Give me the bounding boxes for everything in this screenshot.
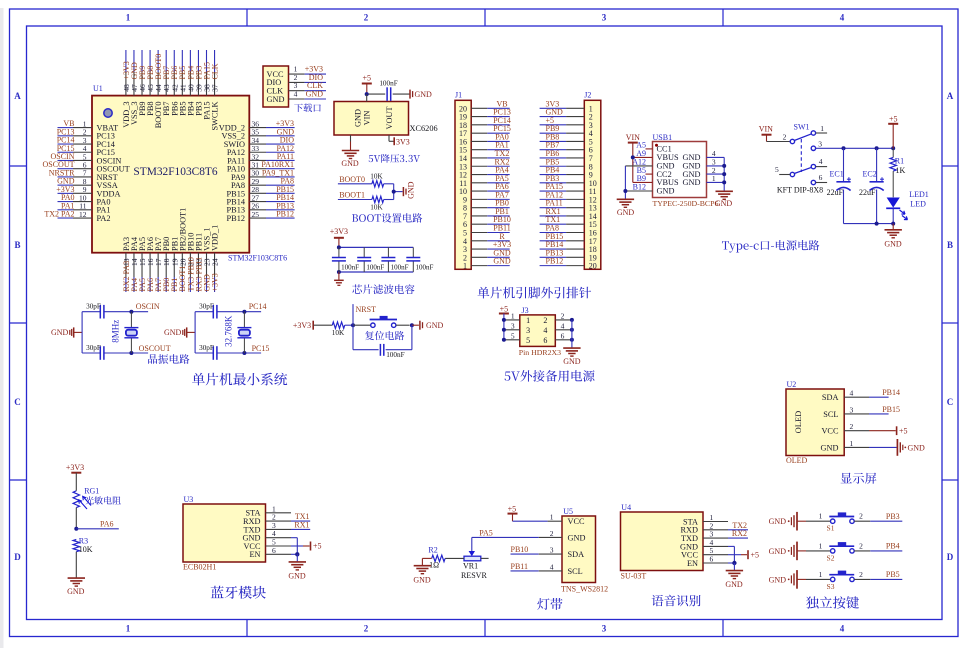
svg-text:2: 2 xyxy=(550,529,554,538)
svg-text:RESVR: RESVR xyxy=(461,571,487,580)
U1 top pin 44 BOOT0 / node BOOT0 xyxy=(154,50,163,128)
U1 top pin 42 PB6 / node PB6 xyxy=(170,50,179,116)
node RX1 xyxy=(291,520,310,529)
svg-text:8MHz: 8MHz xyxy=(111,320,121,343)
svg-text:100nF: 100nF xyxy=(391,263,409,271)
U1 top pin 41 PB5 / node PB5 xyxy=(178,50,187,116)
U1 left pin 2 PC13 / node PC13 xyxy=(57,127,115,140)
U1 top pin 37 SWCLK / node CLK xyxy=(210,50,219,131)
U1 top pin 43 PB7 / node PB7 xyxy=(162,50,171,116)
svg-text:KFT DIP-8X8: KFT DIP-8X8 xyxy=(777,185,823,194)
svg-text:+5: +5 xyxy=(313,542,322,551)
switch button S3 / node PB5 xyxy=(806,570,902,591)
svg-text:S1: S1 xyxy=(827,524,835,533)
svg-text:10K: 10K xyxy=(332,329,345,337)
svg-text:BOOT0: BOOT0 xyxy=(339,175,365,184)
svg-text:A: A xyxy=(14,91,21,101)
svg-text:24: 24 xyxy=(211,258,220,266)
ground typec xyxy=(884,224,902,249)
svg-text:A: A xyxy=(947,91,954,101)
svg-text:10K: 10K xyxy=(79,545,93,554)
svg-text:2: 2 xyxy=(561,311,565,320)
J2 pin 19 / node PB13 xyxy=(540,248,597,262)
svg-text:B: B xyxy=(947,240,953,250)
svg-text:+5: +5 xyxy=(889,114,898,123)
capacitor 30pF bottom 8MHz xyxy=(86,344,104,360)
J1 pin 10 / node PA6 xyxy=(459,182,510,196)
label minimal system title xyxy=(192,373,287,386)
svg-text:4: 4 xyxy=(561,321,565,330)
switch button S1 / node PB3 xyxy=(806,512,902,533)
svg-text:GND: GND xyxy=(415,90,433,99)
svg-text:J1: J1 xyxy=(455,91,462,100)
svg-text:BOOT1: BOOT1 xyxy=(339,191,365,200)
svg-text:25: 25 xyxy=(252,210,260,219)
svg-text:2: 2 xyxy=(543,316,547,325)
U1 bottom pin 18 PB0 / node PB0 xyxy=(162,237,171,292)
J1 pin 17 / node PC15 xyxy=(459,124,511,138)
svg-text:GND: GND xyxy=(67,587,85,596)
J1 pin 6 / node PB10 xyxy=(463,215,511,229)
svg-text:+5: +5 xyxy=(751,550,760,559)
svg-text:GND: GND xyxy=(164,328,182,337)
ground J3 xyxy=(555,318,580,366)
svg-text:EN: EN xyxy=(687,559,698,568)
svg-text:GND: GND xyxy=(617,208,635,217)
J2 pin 8 / node PB5 xyxy=(540,157,593,171)
svg-text:PB3: PB3 xyxy=(886,512,900,521)
regulator VOUT pin to 3V3 xyxy=(389,135,410,146)
svg-text:12: 12 xyxy=(79,210,87,219)
svg-text:100nF: 100nF xyxy=(386,351,404,359)
ground stub BOOT xyxy=(403,181,415,199)
svg-text:GND: GND xyxy=(407,181,416,199)
svg-text:5: 5 xyxy=(775,165,779,174)
svg-text:OLED: OLED xyxy=(793,411,803,434)
U1 left pin 10 PA0 / node PA0 xyxy=(58,193,111,206)
J2 pin 2 / node GND xyxy=(540,108,593,122)
J2 pin 3 / node +5 xyxy=(540,116,593,130)
J2 pin 1 / node 3V3 xyxy=(540,99,593,113)
J1 pin 18 / node PC14 xyxy=(459,116,511,130)
J2 pin 18 / node PB14 xyxy=(540,240,597,254)
label buttons title xyxy=(806,596,859,608)
label bluetooth title xyxy=(211,586,266,599)
download port pin 1 VCC / node +3V3 xyxy=(267,65,327,79)
wire filter cap bottom bus xyxy=(337,270,413,274)
svg-text:VIN: VIN xyxy=(759,125,773,134)
svg-text:PB12: PB12 xyxy=(546,257,564,266)
J1 pin 9 / node PA7 xyxy=(463,190,510,204)
svg-text:GND: GND xyxy=(341,159,359,168)
J2 pin 20 / node PB12 xyxy=(540,257,597,271)
svg-text:C: C xyxy=(947,397,954,407)
U1 left pin 12 PA2 / node TX2 PA2 xyxy=(44,210,110,223)
power +3V3 filter caps xyxy=(330,227,348,247)
U1 bottom pin 23 VSS_1 / node GND xyxy=(202,227,211,292)
J1 pin 4 / node R xyxy=(463,232,510,246)
U1 right pin 33 PA12 / node PA12 xyxy=(227,144,295,157)
U1 right pin 34 SWIO / node DIO xyxy=(224,136,295,149)
capacitor 100nF at regulator xyxy=(379,80,397,101)
U1 top pin 45 PB8 / node PB8 xyxy=(146,50,155,116)
switch button S2 / node PB4 xyxy=(806,541,902,562)
label reset circuit title xyxy=(365,331,404,340)
J1 pin 13 / node RX2 xyxy=(459,157,510,171)
svg-text:4: 4 xyxy=(850,389,854,398)
svg-text:2: 2 xyxy=(859,512,863,521)
ground stub crystal 8MHz xyxy=(51,327,82,337)
U1 bottom pin 24 VDD_1 / node +3V3 xyxy=(210,225,219,292)
node OSCIN xyxy=(136,302,160,311)
U1 left pin 1 VBAT / node VB xyxy=(58,119,119,132)
ground filter caps xyxy=(334,272,344,285)
connector download port body xyxy=(263,66,289,107)
svg-text:1: 1 xyxy=(820,124,824,133)
connector J2 header body xyxy=(584,91,601,270)
svg-text:1: 1 xyxy=(126,13,131,23)
ground stub at regulator cap xyxy=(410,90,432,100)
U1 left pin 6 OSCOUT / node OSCOUT xyxy=(42,160,129,173)
svg-text:PB12: PB12 xyxy=(276,210,294,219)
U1 bottom pin 21 PB10 / node TX3 PB10 xyxy=(186,233,195,292)
download port pin 4 GND / node GND xyxy=(267,90,327,104)
svg-text:VIN: VIN xyxy=(626,133,640,142)
J2 pin 5 / node PB8 xyxy=(540,132,593,146)
svg-text:22uF: 22uF xyxy=(859,188,876,197)
svg-text:U1: U1 xyxy=(93,84,103,93)
connector J3 body xyxy=(511,306,565,357)
svg-text:SWCLK: SWCLK xyxy=(211,101,220,130)
diode LED1 xyxy=(886,190,929,224)
download port pin 3 CLK / node CLK xyxy=(267,81,327,95)
svg-text:10K: 10K xyxy=(370,172,383,180)
resistor R3 10K xyxy=(73,536,93,554)
svg-text:EC2: EC2 xyxy=(863,169,877,178)
svg-text:PC15: PC15 xyxy=(252,344,270,353)
U1 right pin 31 PA10 / node PA10RX1 xyxy=(227,160,295,173)
svg-text:PB4: PB4 xyxy=(886,542,900,551)
svg-text:PB11: PB11 xyxy=(511,562,529,571)
J1 pin 14 / node TX2 xyxy=(459,149,510,163)
U1 top pin 46 PB9 / node PB9 xyxy=(138,50,147,116)
J2 pin 9 / node PB4 xyxy=(540,166,593,180)
svg-text:PA2: PA2 xyxy=(97,214,111,223)
resistor R2 1ohm xyxy=(428,545,445,569)
ground button S3 xyxy=(769,570,806,589)
ground oled xyxy=(844,439,925,456)
power +3V3 RG1 xyxy=(66,463,84,491)
svg-text:C: C xyxy=(14,397,21,407)
svg-text:GND: GND xyxy=(683,178,701,187)
capacitor C2 100nF filter xyxy=(357,247,384,272)
svg-text:PB10: PB10 xyxy=(511,545,529,554)
svg-text:SU-03T: SU-03T xyxy=(621,571,647,580)
svg-text:GND: GND xyxy=(908,443,926,452)
U1 left pin 4 PC15 / node PC15 xyxy=(57,144,115,157)
svg-text:CLK: CLK xyxy=(210,63,219,79)
U1 top pin 39 PB3 / node PB3 xyxy=(194,50,203,116)
U1 right pin 32 PA11 / node PA11 xyxy=(227,152,294,165)
svg-text:SDA: SDA xyxy=(822,393,839,402)
label lamp strip title xyxy=(537,598,562,610)
svg-text:GND: GND xyxy=(267,95,285,104)
U1 bottom pin 15 PA5 / node PA5 xyxy=(138,237,147,292)
svg-text:RX2: RX2 xyxy=(732,529,747,538)
J1 pin 3 / node +3V3 xyxy=(463,240,511,254)
svg-text:VDD_1: VDD_1 xyxy=(211,225,220,251)
svg-text:GND: GND xyxy=(821,443,839,452)
wire crystal loop 32.768K xyxy=(195,310,261,355)
U1 bottom pin 13 PA3 / node RX2 PA3 xyxy=(122,237,131,292)
label headers title xyxy=(478,287,592,299)
U1 left pin 7 NRST / node NRSTR xyxy=(49,168,118,181)
svg-text:U4: U4 xyxy=(621,503,631,512)
svg-text:PB15: PB15 xyxy=(882,405,900,414)
op-amp U5 WS2812 body xyxy=(550,507,608,593)
U1 left pin 11 PA1 / node PA1 xyxy=(58,201,111,214)
svg-text:+5: +5 xyxy=(363,74,372,83)
U1 bottom pin 19 PB1 / node PB1 xyxy=(170,237,179,292)
svg-text:6: 6 xyxy=(272,546,276,555)
svg-text:SCL: SCL xyxy=(568,567,583,576)
svg-text:4: 4 xyxy=(819,157,823,166)
svg-text:2: 2 xyxy=(850,422,854,431)
svg-text:LED: LED xyxy=(910,199,926,208)
svg-text:D: D xyxy=(947,552,954,562)
svg-text:6: 6 xyxy=(543,336,547,345)
U1 left pin 5 OSCIN / node OSCIN xyxy=(50,152,121,165)
power +5 U4 xyxy=(728,550,759,559)
node PA6 xyxy=(74,508,119,531)
svg-text:U3: U3 xyxy=(184,495,194,504)
capacitor 100nF reset xyxy=(353,325,412,359)
connector USB1 Type-C body xyxy=(632,133,718,208)
svg-text:GND: GND xyxy=(426,321,444,330)
power +3V3 reset xyxy=(293,321,332,330)
svg-text:100nF: 100nF xyxy=(366,263,384,271)
connector J1 header body xyxy=(455,91,471,270)
regulator GND pin to ground xyxy=(341,135,359,168)
svg-text:R1: R1 xyxy=(895,156,904,165)
svg-text:VIN: VIN xyxy=(363,111,372,126)
svg-text:VCC: VCC xyxy=(821,427,839,436)
svg-text:XC6206: XC6206 xyxy=(410,124,438,133)
svg-text:RX1: RX1 xyxy=(294,520,309,529)
svg-text:U5: U5 xyxy=(563,507,573,516)
J2 pin 14 / node RX1 xyxy=(540,207,597,221)
label backup power title xyxy=(505,370,595,382)
resistor 10K BOOT1 xyxy=(370,196,383,211)
wire USB1 GND pins xyxy=(623,166,652,199)
U1 right pin 26 PB13 / node PB13 xyxy=(227,201,295,214)
J2 pin 17 / node PB15 xyxy=(540,232,597,246)
node PB11 xyxy=(511,562,563,571)
power +5 oled xyxy=(844,426,907,435)
svg-text:3: 3 xyxy=(526,326,530,335)
J1 pin 20 / node VB xyxy=(459,99,510,113)
capacitor 30pF top 32.768K xyxy=(199,302,217,318)
svg-text:VCC: VCC xyxy=(568,517,586,526)
U1 right pin 36 VDD_2 / node +3V3 xyxy=(219,119,295,132)
power +5 U5 xyxy=(508,504,563,521)
U1 left pin 3 PC14 / node PC14 xyxy=(57,136,116,149)
wire typec bottom bus xyxy=(844,222,896,226)
svg-text:ECB02H1: ECB02H1 xyxy=(183,563,216,572)
regulator XC6206 body xyxy=(334,102,438,136)
svg-text:SCL: SCL xyxy=(823,410,838,419)
svg-text:3: 3 xyxy=(818,139,822,148)
svg-text:GND: GND xyxy=(769,517,787,526)
svg-text:PB5: PB5 xyxy=(886,570,900,579)
J1 pin 19 / node PC13 xyxy=(459,108,511,122)
svg-text:4: 4 xyxy=(294,90,298,99)
svg-text:100nF: 100nF xyxy=(341,263,359,271)
ground U3 xyxy=(288,554,306,580)
capacitor C4 100nF filter xyxy=(406,247,433,272)
svg-text:NRST: NRST xyxy=(356,305,377,314)
node PA5 wire to VR1 xyxy=(472,528,562,551)
svg-text:VR1: VR1 xyxy=(463,561,478,570)
svg-text:+3V3: +3V3 xyxy=(66,463,84,472)
svg-text:30pF: 30pF xyxy=(86,302,101,310)
node PC14 xyxy=(249,302,267,311)
wire U4 gnd elbow xyxy=(728,546,737,565)
J1 pin 15 / node PA1 xyxy=(459,141,510,155)
download port pin 2 DIO / node DIO xyxy=(267,73,327,87)
svg-text:GND: GND xyxy=(353,109,362,127)
J1 pin 7 / node PB1 xyxy=(463,207,510,221)
ground U4 xyxy=(725,563,743,589)
node PB14 oled xyxy=(844,388,900,397)
svg-text:STM32F103C8T6: STM32F103C8T6 xyxy=(228,254,287,263)
svg-text:4: 4 xyxy=(840,624,845,634)
svg-text:2: 2 xyxy=(859,570,863,579)
J2 pin 10 / node PB3 xyxy=(540,174,597,188)
svg-text:+5: +5 xyxy=(899,427,908,436)
svg-text:STM32F103C8T6: STM32F103C8T6 xyxy=(133,166,217,178)
svg-text:+5: +5 xyxy=(500,304,509,313)
svg-text:4: 4 xyxy=(550,562,554,571)
J1 pin 1 / node GND xyxy=(463,257,511,271)
svg-text:2: 2 xyxy=(364,13,369,23)
U1 top pin 47 VSS_3 / node GND xyxy=(130,50,139,125)
J2 pin 11 / node PA15 xyxy=(540,182,597,196)
power VIN SW1 xyxy=(759,125,790,142)
wire USB1 VBUS pins xyxy=(631,149,653,183)
U1 right pin 25 PB12 / node PB12 xyxy=(227,210,295,223)
J2 pin 16 / node PA8 xyxy=(540,224,597,238)
svg-text:LED1: LED1 xyxy=(909,190,929,199)
wire reset right junction xyxy=(410,323,419,327)
U1 top pin 48 VDD_3 / node +3V3 xyxy=(122,50,131,128)
svg-text:GND: GND xyxy=(568,533,586,542)
svg-text:PB14: PB14 xyxy=(882,388,900,397)
capacitor EC2 22uF xyxy=(859,148,884,223)
svg-text:30pF: 30pF xyxy=(199,344,214,352)
J2 pin 13 / node PA11 xyxy=(540,199,597,213)
node BOOT1 xyxy=(338,191,372,200)
U1 bottom pin 16 PA6 / node PA6 xyxy=(146,237,155,292)
svg-text:1: 1 xyxy=(712,174,716,183)
label crystal title xyxy=(148,354,189,364)
svg-text:+3V3: +3V3 xyxy=(330,227,348,236)
potentiometer VR1 RESVR xyxy=(445,551,489,580)
node PB10 xyxy=(511,545,563,554)
svg-text:1: 1 xyxy=(511,311,515,320)
svg-text:1: 1 xyxy=(526,316,530,325)
svg-text:GND: GND xyxy=(884,240,902,249)
U1 left pin 8 VSSA / node GND xyxy=(57,177,118,190)
svg-text:VOUT: VOUT xyxy=(385,106,394,129)
svg-text:+5: +5 xyxy=(508,504,517,513)
svg-text:PC14: PC14 xyxy=(249,302,267,311)
J1 pin 12 / node PA4 xyxy=(459,166,510,180)
ground RG1 divider xyxy=(67,552,85,596)
svg-text:5: 5 xyxy=(526,336,530,345)
U1 bottom pin 14 PA4 / node PA4 xyxy=(130,236,139,292)
capacitor EC1 22uF xyxy=(827,148,851,223)
wire SW1 pin3 to +5 bus xyxy=(816,146,896,150)
svg-text:3: 3 xyxy=(602,624,607,634)
svg-text:GND: GND xyxy=(563,357,581,366)
svg-text:1: 1 xyxy=(819,541,823,550)
node TX2 xyxy=(728,521,748,530)
svg-text:GND: GND xyxy=(306,90,324,99)
svg-text:100nF: 100nF xyxy=(379,80,397,88)
svg-text:GND: GND xyxy=(657,187,675,196)
svg-text:20: 20 xyxy=(589,262,597,271)
svg-text:TNS_WS2812: TNS_WS2812 xyxy=(561,585,608,594)
svg-text:PA5: PA5 xyxy=(479,528,493,537)
svg-text:GND: GND xyxy=(725,580,743,589)
label BOOT circuit title xyxy=(352,213,422,223)
svg-text:B: B xyxy=(14,240,20,250)
svg-text:32.768K: 32.768K xyxy=(224,315,234,347)
svg-text:OSCIN: OSCIN xyxy=(136,302,160,311)
J2 pin 4 / node PB9 xyxy=(540,124,593,138)
resistor 10K reset xyxy=(332,322,345,337)
crystal 32.768K xyxy=(224,312,252,353)
J1 pin 2 / node GND xyxy=(463,248,511,262)
svg-text:1: 1 xyxy=(126,624,131,634)
svg-text:PA6: PA6 xyxy=(100,519,114,528)
U1 bottom pin 20 PB2/BOOT1 / node BOOT1 xyxy=(178,208,187,292)
op-amp U3 bluetooth body xyxy=(183,495,291,572)
J1 pin 16 / node PA0 xyxy=(459,132,510,146)
svg-text:1: 1 xyxy=(850,439,854,448)
svg-text:RG1: RG1 xyxy=(84,486,99,495)
capacitor C1 100nF filter xyxy=(332,247,359,272)
svg-text:R2: R2 xyxy=(428,545,437,554)
svg-text:OLED: OLED xyxy=(786,456,808,465)
svg-text:GND: GND xyxy=(493,257,511,266)
ground stub reset xyxy=(420,321,444,331)
label RG1 photoresistor name xyxy=(85,496,121,504)
svg-text:2: 2 xyxy=(783,132,787,141)
svg-text:EN: EN xyxy=(249,550,260,559)
U1 right pin 30 PA9 / node PA9_TX1 xyxy=(231,168,295,181)
ground button S1 xyxy=(769,512,806,531)
U1 bottom pin 22 PB11 / node RX3 PB11 xyxy=(194,233,203,292)
switch reset button xyxy=(353,316,410,328)
power +5 U3 xyxy=(291,542,322,551)
svg-text:+3V3: +3V3 xyxy=(210,273,219,291)
svg-text:10K: 10K xyxy=(370,204,383,212)
wire regulator VIN node xyxy=(365,92,386,101)
ground stub crystal 32.768K xyxy=(164,327,195,337)
svg-text:2: 2 xyxy=(859,541,863,550)
